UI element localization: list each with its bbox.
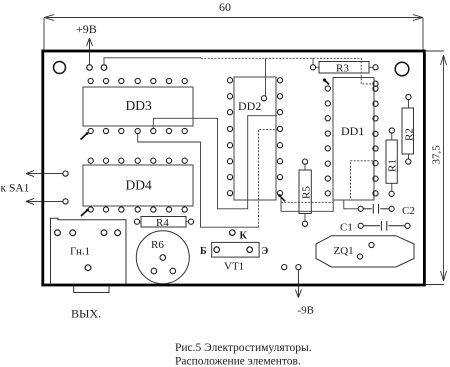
svg-text:к SA1: к SA1: [1, 182, 30, 194]
svg-text:C1: C1: [340, 222, 353, 234]
svg-text:R4: R4: [156, 217, 169, 229]
svg-text:DD4: DD4: [126, 178, 152, 193]
svg-text:60: 60: [219, 0, 231, 14]
svg-text:ZQ1: ZQ1: [334, 245, 354, 257]
svg-text:DD1: DD1: [341, 124, 364, 138]
svg-text:37,5: 37,5: [431, 145, 443, 165]
svg-text:R6: R6: [151, 239, 164, 251]
svg-text:R3: R3: [336, 63, 349, 75]
svg-text:Гн.1: Гн.1: [70, 246, 90, 258]
svg-text:-9В: -9В: [298, 305, 315, 317]
svg-text:VT1: VT1: [224, 261, 244, 273]
svg-text:Э: Э: [262, 246, 269, 257]
svg-text:R1: R1: [387, 159, 399, 172]
svg-text:C2: C2: [402, 205, 415, 217]
svg-text:Рис.5 Электростимуляторы.: Рис.5 Электростимуляторы.: [175, 342, 312, 354]
svg-text:R2: R2: [404, 128, 416, 141]
svg-text:Расположение элементов.: Расположение элементов.: [175, 356, 301, 367]
svg-text:DD3: DD3: [126, 98, 152, 113]
svg-text:ВЫХ.: ВЫХ.: [71, 307, 101, 321]
svg-text:К: К: [240, 231, 248, 242]
svg-text:Б: Б: [200, 246, 207, 257]
svg-text:DD2: DD2: [238, 99, 261, 113]
svg-text:+9В: +9В: [76, 22, 97, 36]
svg-text:R5: R5: [301, 186, 313, 199]
